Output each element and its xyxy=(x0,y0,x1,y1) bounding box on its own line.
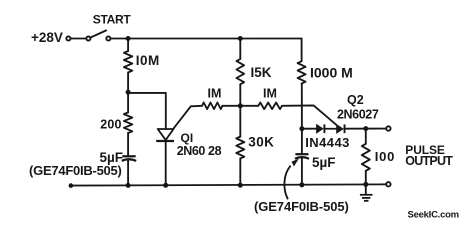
wire: 30K to bottom rail xyxy=(239,159,241,186)
wire: junction to Q1 anode (right then down) xyxy=(128,93,166,129)
svg-text:I000 M: I000 M xyxy=(310,64,353,80)
svg-text:(GE74F0IB-505): (GE74F0IB-505) xyxy=(254,199,349,214)
resistor R4 1M (right) xyxy=(258,103,282,110)
resistor R1 10M xyxy=(124,51,132,73)
wire: 1M right over 1000M column to Q2 gate diagonal xyxy=(282,105,336,124)
wire: C2 to bottom rail xyxy=(301,158,303,184)
wire: D1 to Q2 xyxy=(324,128,336,130)
svg-text:30K: 30K xyxy=(248,135,274,150)
resistor R2 200 xyxy=(124,112,132,133)
wire: divider junction down to 30K xyxy=(239,106,241,137)
node junction bottom rail / C2 xyxy=(299,182,304,187)
svg-text:SeekIC.com: SeekIC.com xyxy=(408,209,459,220)
wire: 200 to capacitor C1 xyxy=(127,133,129,156)
wire top rail: +28V terminal to switch pole xyxy=(71,38,87,40)
node junction 10M/200/Q1-anode xyxy=(126,90,131,95)
svg-text:START: START xyxy=(93,13,132,27)
wire curved pointer arrow from GE label to C2 xyxy=(284,159,298,199)
diode D1 1N4443 (filled triangle) xyxy=(317,125,324,134)
svg-text:+28V: +28V xyxy=(31,30,63,45)
node bottom rail left terminal dot xyxy=(69,183,74,188)
wire: 100 to bottom rail xyxy=(365,171,367,185)
resistor R5 15K xyxy=(237,59,245,84)
svg-text:5µF: 5µF xyxy=(312,155,336,170)
node junction top rail / R1 10M xyxy=(126,36,131,41)
svg-text:200: 200 xyxy=(100,117,121,131)
diode D1 cathode bar xyxy=(323,124,325,133)
svg-text:IM: IM xyxy=(208,87,222,101)
svg-text:I5K: I5K xyxy=(251,65,272,80)
svg-text:I00: I00 xyxy=(375,149,395,164)
transistor Q2 2N6027 PUT: triangle (filled, pointing right) xyxy=(337,125,344,134)
svg-text:2N6027: 2N6027 xyxy=(337,107,379,121)
node junction output / 100 xyxy=(363,126,368,131)
node junction bottom rail / C1 xyxy=(126,183,131,188)
resistor R3 1M (left) xyxy=(202,103,223,110)
wire: top rail down to 10M xyxy=(127,39,129,52)
switch S1 throw contact xyxy=(106,36,110,40)
transistor Q1 2N6028 PUT: anode triangle (hollow, pointing down) xyxy=(158,129,174,140)
node +28V supply terminal xyxy=(66,36,70,40)
capacitor C2 5uF bottom plate (curved) xyxy=(295,157,309,159)
wire: junction down to 200 xyxy=(127,92,129,112)
wire: 15K column top xyxy=(239,39,241,60)
wire: Q1 cathode to bottom rail xyxy=(165,142,167,186)
resistor R7 1000M xyxy=(298,61,306,83)
capacitor C1 5uF bottom plate (curved) xyxy=(122,159,136,161)
wire top rail: switch to 1000M corner xyxy=(111,38,302,40)
node junction top rail / 15K column xyxy=(238,36,243,41)
transistor Q2 cathode bar xyxy=(344,124,346,133)
resistor R8 100 xyxy=(362,144,370,171)
node pulse output terminal (bottom) xyxy=(386,182,390,186)
svg-text:QI: QI xyxy=(181,131,194,145)
wire: 1M left to divider junction xyxy=(223,105,241,107)
transistor Q1 cathode bar xyxy=(156,140,174,142)
ground symbol xyxy=(360,184,373,200)
wire: 1000M down across gate row to anode junction xyxy=(301,84,303,129)
resistor R6 30K xyxy=(236,137,244,159)
wire: divider junction to 1M right xyxy=(240,105,258,107)
wire: output junction down to 100 xyxy=(365,129,367,144)
node junction bottom rail / Q1 cathode xyxy=(163,183,168,188)
svg-text:I0M: I0M xyxy=(136,53,160,68)
wire: 10M to junction xyxy=(127,73,129,93)
wire: Q2 cathode to output junction xyxy=(345,128,387,130)
wire bottom rail xyxy=(71,184,386,185)
wire: top rail corner down to 1000M xyxy=(301,39,303,62)
wire: junction down to C2 xyxy=(301,129,303,154)
svg-text:IN4443: IN4443 xyxy=(305,135,350,150)
wire: Q1 gate diagonal up to 1M row xyxy=(173,106,202,130)
node junction 15K/30K/1M/1M divider xyxy=(238,103,243,108)
svg-text:Q2: Q2 xyxy=(347,93,364,107)
svg-text:2N60 28: 2N60 28 xyxy=(177,144,222,158)
svg-text:(GE74F0IB-505): (GE74F0IB-505) xyxy=(29,163,122,178)
wire: 15K to divider junction xyxy=(239,84,241,106)
wire: diode row from junction to D1 xyxy=(302,128,317,130)
node junction Q2 anode / C2 / diode row xyxy=(299,126,304,131)
switch S1 START pole contact xyxy=(86,36,90,40)
capacitor C2 5uF top plate xyxy=(295,153,308,155)
svg-text:OUTPUT: OUTPUT xyxy=(405,154,453,168)
node junction bottom rail / 100 / ground xyxy=(363,182,368,187)
node pulse output terminal (top) xyxy=(386,126,390,130)
switch S1 blade xyxy=(90,30,106,37)
svg-text:IM: IM xyxy=(263,87,277,101)
node junction bottom rail / 30K xyxy=(238,183,243,188)
capacitor C1 5uF top plate xyxy=(122,155,135,157)
wire: C1 to bottom rail xyxy=(127,161,129,186)
